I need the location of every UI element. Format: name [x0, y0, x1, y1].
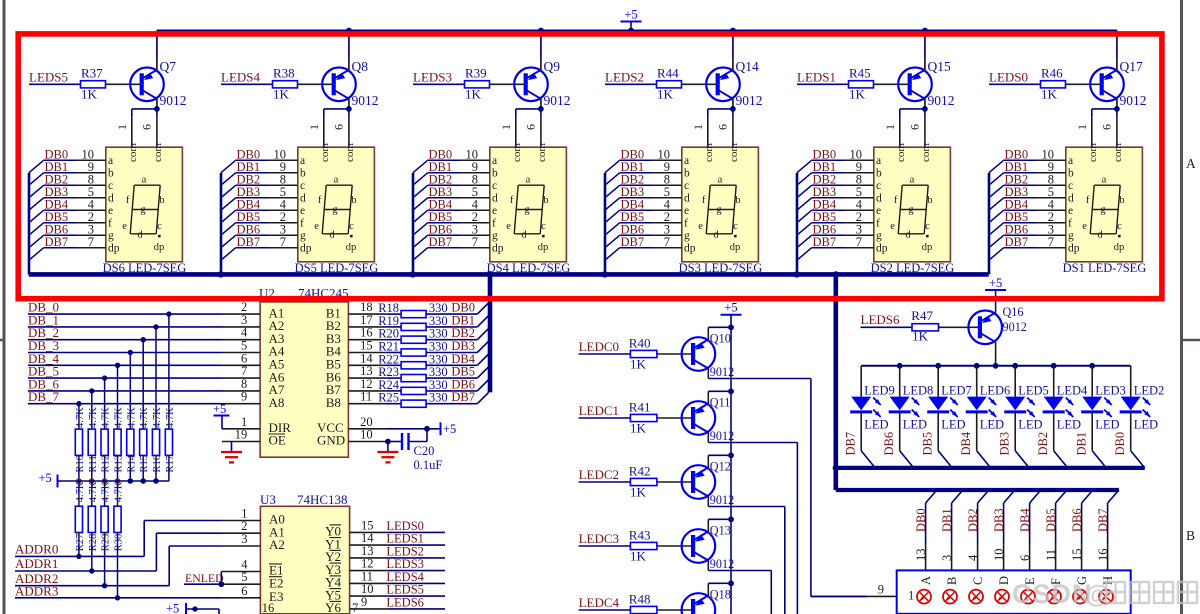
svg-text:Q9: Q9 [544, 59, 561, 74]
svg-text:4.7K: 4.7K [114, 407, 125, 428]
svg-text:e: e [890, 221, 895, 232]
svg-text:dp: dp [108, 243, 120, 255]
svg-text:OE: OE [269, 433, 286, 448]
svg-text:R43: R43 [629, 528, 651, 543]
svg-text:R40: R40 [629, 336, 651, 351]
svg-text:d: d [876, 193, 882, 205]
svg-text:R44: R44 [657, 66, 679, 81]
svg-text:R42: R42 [629, 464, 651, 479]
svg-text:DS1 LED-7SEG: DS1 LED-7SEG [1063, 261, 1147, 275]
svg-text:LED: LED [864, 417, 888, 431]
svg-text:R27: R27 [75, 534, 86, 552]
svg-text:d: d [137, 229, 143, 240]
svg-text:a: a [910, 174, 915, 185]
svg-text:C: C [971, 577, 985, 585]
svg-text:4.7K: 4.7K [165, 407, 176, 428]
svg-text:Q11: Q11 [710, 396, 731, 410]
svg-text:R12: R12 [101, 455, 112, 473]
svg-text:R10: R10 [75, 455, 86, 473]
svg-text:a: a [718, 174, 723, 185]
svg-text:4.7K: 4.7K [88, 481, 99, 502]
svg-text:com: com [920, 143, 932, 162]
svg-text:com: com [536, 143, 548, 162]
svg-text:DB6: DB6 [882, 432, 896, 456]
svg-text:LED4: LED4 [1057, 384, 1088, 398]
svg-text:dp: dp [1114, 242, 1125, 253]
svg-text:1K: 1K [630, 485, 647, 500]
svg-text:dp: dp [922, 242, 933, 253]
svg-text:f: f [1086, 195, 1090, 206]
svg-text:DB0: DB0 [914, 508, 928, 532]
svg-text:dp: dp [730, 242, 741, 253]
svg-text:1K: 1K [465, 87, 482, 102]
svg-text:R47: R47 [911, 308, 933, 323]
svg-text:DB_7: DB_7 [28, 389, 60, 404]
svg-text:LED2: LED2 [1134, 384, 1165, 398]
svg-text:b: b [927, 195, 932, 206]
svg-text:R30: R30 [114, 534, 125, 552]
svg-text:B8: B8 [326, 395, 341, 410]
svg-text:1: 1 [1075, 124, 1089, 130]
svg-text:c: c [876, 180, 881, 192]
svg-text:LED8: LED8 [903, 384, 934, 398]
svg-text:19: 19 [235, 428, 248, 442]
svg-text:LEDS0: LEDS0 [989, 70, 1028, 85]
svg-text:A8: A8 [269, 395, 285, 410]
svg-text:f: f [318, 195, 322, 206]
svg-text:g: g [300, 230, 306, 242]
svg-text:dp: dp [154, 242, 165, 253]
svg-text:com: com [1087, 143, 1099, 162]
svg-text:d: d [905, 229, 911, 240]
svg-text:b: b [300, 168, 306, 180]
svg-text:DB4: DB4 [959, 431, 973, 455]
svg-text:a: a [492, 155, 497, 167]
svg-text:Q18: Q18 [710, 588, 731, 602]
svg-text:DB7: DB7 [813, 235, 837, 249]
svg-text:Q7: Q7 [160, 59, 177, 74]
svg-text:R17: R17 [165, 455, 176, 473]
svg-text:5: 5 [241, 570, 247, 584]
svg-text:R39: R39 [465, 66, 487, 81]
svg-text:1K: 1K [657, 87, 674, 102]
svg-text:Y6: Y6 [325, 600, 341, 614]
svg-text:c: c [349, 221, 354, 232]
svg-text:c: c [492, 180, 497, 192]
svg-text:dp: dp [684, 243, 696, 255]
svg-text:+5: +5 [989, 276, 1002, 290]
svg-text:7: 7 [856, 235, 862, 249]
svg-text:9: 9 [878, 582, 884, 596]
svg-text:1: 1 [307, 124, 321, 130]
svg-text:9012: 9012 [544, 93, 571, 108]
svg-text:9012: 9012 [928, 93, 955, 108]
svg-text:e: e [122, 221, 127, 232]
svg-text:6: 6 [1018, 555, 1032, 561]
svg-text:1K: 1K [1041, 87, 1058, 102]
svg-text:LEDC2: LEDC2 [579, 467, 619, 482]
svg-text:dp: dp [492, 243, 504, 255]
svg-text:DB7: DB7 [844, 432, 858, 456]
svg-text:+5: +5 [624, 8, 637, 22]
svg-text:A: A [1186, 156, 1196, 171]
svg-text:CSDN: CSDN [1012, 579, 1093, 609]
svg-text:ENLED: ENLED [185, 571, 224, 585]
svg-text:Q15: Q15 [928, 59, 951, 74]
svg-text:R41: R41 [629, 400, 651, 415]
svg-text:DB0: DB0 [1113, 432, 1127, 456]
svg-text:LED: LED [1018, 417, 1042, 431]
svg-text:U3: U3 [260, 492, 276, 507]
svg-text:LEDS6: LEDS6 [386, 595, 424, 609]
svg-text:d: d [329, 229, 335, 240]
svg-text:DB7: DB7 [1005, 235, 1029, 249]
svg-text:A2: A2 [269, 537, 285, 552]
svg-text:LEDS1: LEDS1 [797, 70, 836, 85]
svg-text:9012: 9012 [352, 93, 379, 108]
svg-text:R25: R25 [378, 391, 399, 405]
svg-text:g: g [1068, 230, 1074, 242]
svg-text:Q17: Q17 [1120, 59, 1143, 74]
svg-text:DB7: DB7 [45, 235, 69, 249]
svg-text:DB3: DB3 [998, 432, 1012, 456]
svg-text:a: a [684, 155, 689, 167]
svg-text:a: a [108, 155, 113, 167]
svg-text:7: 7 [352, 601, 358, 614]
svg-text:Q12: Q12 [710, 460, 731, 474]
svg-text:6: 6 [524, 124, 538, 130]
svg-text:e: e [300, 205, 305, 217]
svg-text:3: 3 [940, 555, 954, 561]
svg-text:dp: dp [876, 243, 888, 255]
svg-text:a: a [1102, 174, 1107, 185]
svg-text:Q10: Q10 [710, 332, 731, 346]
svg-text:13: 13 [914, 549, 928, 562]
svg-text:4.7K: 4.7K [126, 407, 137, 428]
svg-text:4: 4 [966, 554, 980, 561]
svg-text:LED: LED [1134, 417, 1158, 431]
svg-text:LED: LED [941, 417, 965, 431]
svg-text:b: b [543, 195, 548, 206]
svg-text:DB5: DB5 [1044, 508, 1058, 532]
svg-text:DB7: DB7 [451, 390, 475, 404]
svg-text:c: c [684, 180, 689, 192]
svg-text:f: f [126, 195, 130, 206]
svg-text:g: g [332, 205, 338, 216]
svg-text:a: a [142, 174, 147, 185]
svg-text:1K: 1K [630, 549, 647, 564]
svg-text:R29: R29 [101, 534, 112, 552]
svg-text:R45: R45 [849, 66, 871, 81]
svg-text:A: A [919, 576, 933, 585]
svg-text:9012: 9012 [736, 93, 763, 108]
svg-text:LED5: LED5 [1018, 384, 1049, 398]
svg-text:c: c [733, 221, 738, 232]
svg-text:b: b [735, 195, 740, 206]
svg-text:DB2: DB2 [966, 508, 980, 532]
svg-text:B: B [1186, 528, 1195, 543]
svg-text:a: a [334, 174, 339, 185]
svg-text:DB5: DB5 [921, 432, 935, 456]
svg-text:1K: 1K [630, 421, 647, 436]
svg-text:g: g [908, 205, 914, 216]
svg-text:15: 15 [1070, 549, 1084, 562]
svg-text:D: D [997, 576, 1011, 585]
svg-text:c: c [1068, 180, 1073, 192]
svg-text:DB3: DB3 [992, 508, 1006, 532]
svg-text:+5: +5 [213, 402, 226, 416]
svg-text:6: 6 [716, 124, 730, 130]
svg-text:DB7: DB7 [237, 235, 261, 249]
svg-text:6: 6 [332, 124, 346, 130]
svg-text:6: 6 [1100, 124, 1114, 130]
svg-text:d: d [713, 229, 719, 240]
svg-text:d: d [108, 193, 114, 205]
svg-text:330: 330 [429, 391, 448, 405]
svg-text:b: b [108, 168, 114, 180]
svg-text:R11: R11 [88, 455, 99, 472]
svg-text:DB7: DB7 [429, 235, 453, 249]
svg-text:e: e [684, 205, 689, 217]
svg-text:1K: 1K [273, 87, 290, 102]
svg-text:com: com [728, 143, 740, 162]
svg-text:DB7: DB7 [621, 235, 645, 249]
svg-text:R14: R14 [126, 454, 137, 472]
svg-text:c: c [925, 221, 930, 232]
svg-text:+5: +5 [39, 471, 52, 485]
svg-text:c: c [541, 221, 546, 232]
svg-text:+5: +5 [443, 422, 456, 436]
svg-text:LED6: LED6 [980, 384, 1011, 398]
svg-text:LEDC3: LEDC3 [579, 531, 619, 546]
svg-text:dp: dp [538, 242, 549, 253]
svg-text:GND: GND [317, 433, 345, 448]
svg-text:b: b [1119, 195, 1124, 206]
svg-text:R38: R38 [273, 66, 295, 81]
svg-text:Q13: Q13 [710, 524, 731, 538]
svg-text:LEDS6: LEDS6 [861, 312, 901, 327]
svg-text:11: 11 [1044, 549, 1058, 561]
svg-text:7: 7 [88, 235, 94, 249]
svg-text:a: a [876, 155, 881, 167]
svg-text:R48: R48 [629, 592, 651, 607]
svg-text:f: f [510, 195, 514, 206]
svg-text:10: 10 [992, 549, 1006, 562]
svg-text:DB7: DB7 [1096, 508, 1110, 532]
svg-text:c: c [157, 221, 162, 232]
svg-text:LEDC1: LEDC1 [579, 403, 619, 418]
svg-text:LEDS4: LEDS4 [221, 70, 261, 85]
svg-text:R16: R16 [152, 455, 163, 473]
svg-text:e: e [314, 221, 319, 232]
svg-text:Q14: Q14 [736, 59, 759, 74]
svg-text:b: b [684, 168, 690, 180]
svg-text:DB1: DB1 [940, 508, 954, 532]
svg-text:DB2: DB2 [1036, 432, 1050, 456]
svg-text:g: g [492, 230, 498, 242]
svg-text:a: a [526, 174, 531, 185]
svg-text:7: 7 [1048, 235, 1054, 249]
svg-text:C20: C20 [414, 444, 435, 458]
svg-text:1: 1 [499, 124, 513, 130]
svg-text:f: f [108, 218, 112, 230]
svg-text:0.1uF: 0.1uF [414, 458, 443, 472]
svg-text:b: b [159, 195, 164, 206]
svg-text:e: e [1082, 221, 1087, 232]
svg-text:c: c [108, 180, 113, 192]
svg-text:b: b [876, 168, 882, 180]
svg-text:7: 7 [472, 235, 478, 249]
svg-text:1: 1 [115, 124, 129, 130]
svg-text:com: com [152, 143, 164, 162]
svg-text:f: f [1068, 218, 1072, 230]
svg-text:11: 11 [360, 390, 372, 404]
svg-text:9: 9 [361, 595, 367, 609]
svg-text:R37: R37 [81, 66, 103, 81]
svg-text:com: com [895, 143, 907, 162]
svg-text:d: d [1068, 193, 1074, 205]
svg-text:e: e [492, 205, 497, 217]
svg-text:6: 6 [908, 124, 922, 130]
svg-text:e: e [698, 221, 703, 232]
svg-text:B: B [945, 577, 959, 585]
svg-text:1: 1 [691, 124, 705, 130]
svg-text:LED3: LED3 [1095, 384, 1126, 398]
svg-text:LEDS2: LEDS2 [605, 70, 644, 85]
svg-text:dp: dp [300, 243, 312, 255]
svg-text:1K: 1K [912, 329, 929, 344]
svg-text:R15: R15 [139, 455, 150, 473]
svg-text:LEDS3: LEDS3 [413, 70, 452, 85]
svg-text:9: 9 [241, 390, 247, 404]
svg-text:ADDR0: ADDR0 [15, 542, 58, 557]
svg-text:74HC138: 74HC138 [297, 492, 348, 507]
svg-text:f: f [300, 218, 304, 230]
svg-text:10: 10 [360, 428, 373, 442]
svg-text:d: d [684, 193, 690, 205]
svg-text:DB1: DB1 [1075, 432, 1089, 456]
svg-text:a: a [300, 155, 305, 167]
svg-text:f: f [876, 218, 880, 230]
svg-text:f: f [702, 195, 706, 206]
svg-text:1: 1 [908, 589, 914, 603]
svg-text:b: b [492, 168, 498, 180]
svg-text:g: g [684, 230, 690, 242]
svg-text:7: 7 [280, 235, 286, 249]
svg-text:LED7: LED7 [941, 384, 972, 398]
svg-text:LED: LED [980, 417, 1004, 431]
svg-text:+5: +5 [166, 602, 179, 614]
svg-text:6: 6 [140, 124, 154, 130]
svg-text:dp: dp [346, 242, 357, 253]
svg-text:LEDC0: LEDC0 [579, 339, 619, 354]
svg-text:Q16: Q16 [1003, 305, 1024, 319]
svg-text:com: com [703, 143, 715, 162]
svg-text:com: com [1112, 143, 1124, 162]
svg-text:1: 1 [883, 124, 897, 130]
svg-text:9012: 9012 [1120, 93, 1147, 108]
svg-text:g: g [108, 230, 114, 242]
svg-text:4.7K: 4.7K [101, 481, 112, 502]
svg-text:R46: R46 [1041, 66, 1063, 81]
svg-text:d: d [300, 193, 306, 205]
svg-text:g: g [140, 205, 146, 216]
svg-text:ADDR1: ADDR1 [15, 556, 58, 571]
svg-text:3: 3 [241, 532, 247, 546]
svg-text:DB6: DB6 [1070, 508, 1084, 532]
svg-text:9012: 9012 [160, 93, 187, 108]
svg-text:com: com [511, 143, 523, 162]
svg-text:e: e [1068, 205, 1073, 217]
svg-text:+5: +5 [724, 301, 737, 315]
svg-text:e: e [876, 205, 881, 217]
svg-text:LED: LED [1095, 417, 1119, 431]
svg-text:e: e [506, 221, 511, 232]
svg-text:4.7K: 4.7K [88, 407, 99, 428]
svg-text:f: f [894, 195, 898, 206]
svg-text:g: g [1100, 205, 1106, 216]
svg-text:g: g [876, 230, 882, 242]
svg-text:DB4: DB4 [1018, 508, 1032, 532]
svg-text:b: b [351, 195, 356, 206]
svg-text:e: e [108, 205, 113, 217]
svg-text:R13: R13 [114, 455, 125, 473]
svg-text:4.7K: 4.7K [75, 481, 86, 502]
svg-text:9012: 9012 [1003, 320, 1027, 334]
svg-text:LED: LED [1057, 417, 1081, 431]
svg-text:LED9: LED9 [864, 384, 895, 398]
svg-text:6: 6 [241, 584, 247, 598]
svg-text:d: d [521, 229, 527, 240]
svg-text:g: g [716, 205, 722, 216]
svg-text:4.7K: 4.7K [75, 407, 86, 428]
svg-text:7: 7 [664, 235, 670, 249]
svg-text:LEDC4: LEDC4 [579, 595, 620, 610]
svg-text:c: c [300, 180, 305, 192]
svg-text:R28: R28 [88, 534, 99, 552]
svg-text:dp: dp [1068, 243, 1080, 255]
svg-text:4.7K: 4.7K [152, 407, 163, 428]
svg-text:4.7K: 4.7K [139, 407, 150, 428]
svg-text:4.7K: 4.7K [114, 481, 125, 502]
svg-text:f: f [684, 218, 688, 230]
svg-text:1K: 1K [81, 87, 98, 102]
svg-text:16: 16 [262, 601, 275, 614]
svg-text:f: f [492, 218, 496, 230]
svg-text:a: a [1068, 155, 1073, 167]
svg-text:LEDS5: LEDS5 [29, 70, 68, 85]
svg-text:com: com [319, 143, 331, 162]
svg-text:com: com [344, 143, 356, 162]
svg-text:16: 16 [1096, 549, 1110, 562]
svg-text:4.7K: 4.7K [101, 407, 112, 428]
svg-text:d: d [1097, 229, 1103, 240]
svg-text:b: b [1068, 168, 1074, 180]
svg-text:d: d [492, 193, 498, 205]
svg-text:Q8: Q8 [352, 59, 369, 74]
svg-text:LED: LED [903, 417, 927, 431]
svg-text:c: c [1117, 221, 1122, 232]
svg-text:com: com [127, 143, 139, 162]
svg-text:1K: 1K [849, 87, 866, 102]
svg-text:1K: 1K [630, 357, 647, 372]
svg-text:g: g [524, 205, 530, 216]
